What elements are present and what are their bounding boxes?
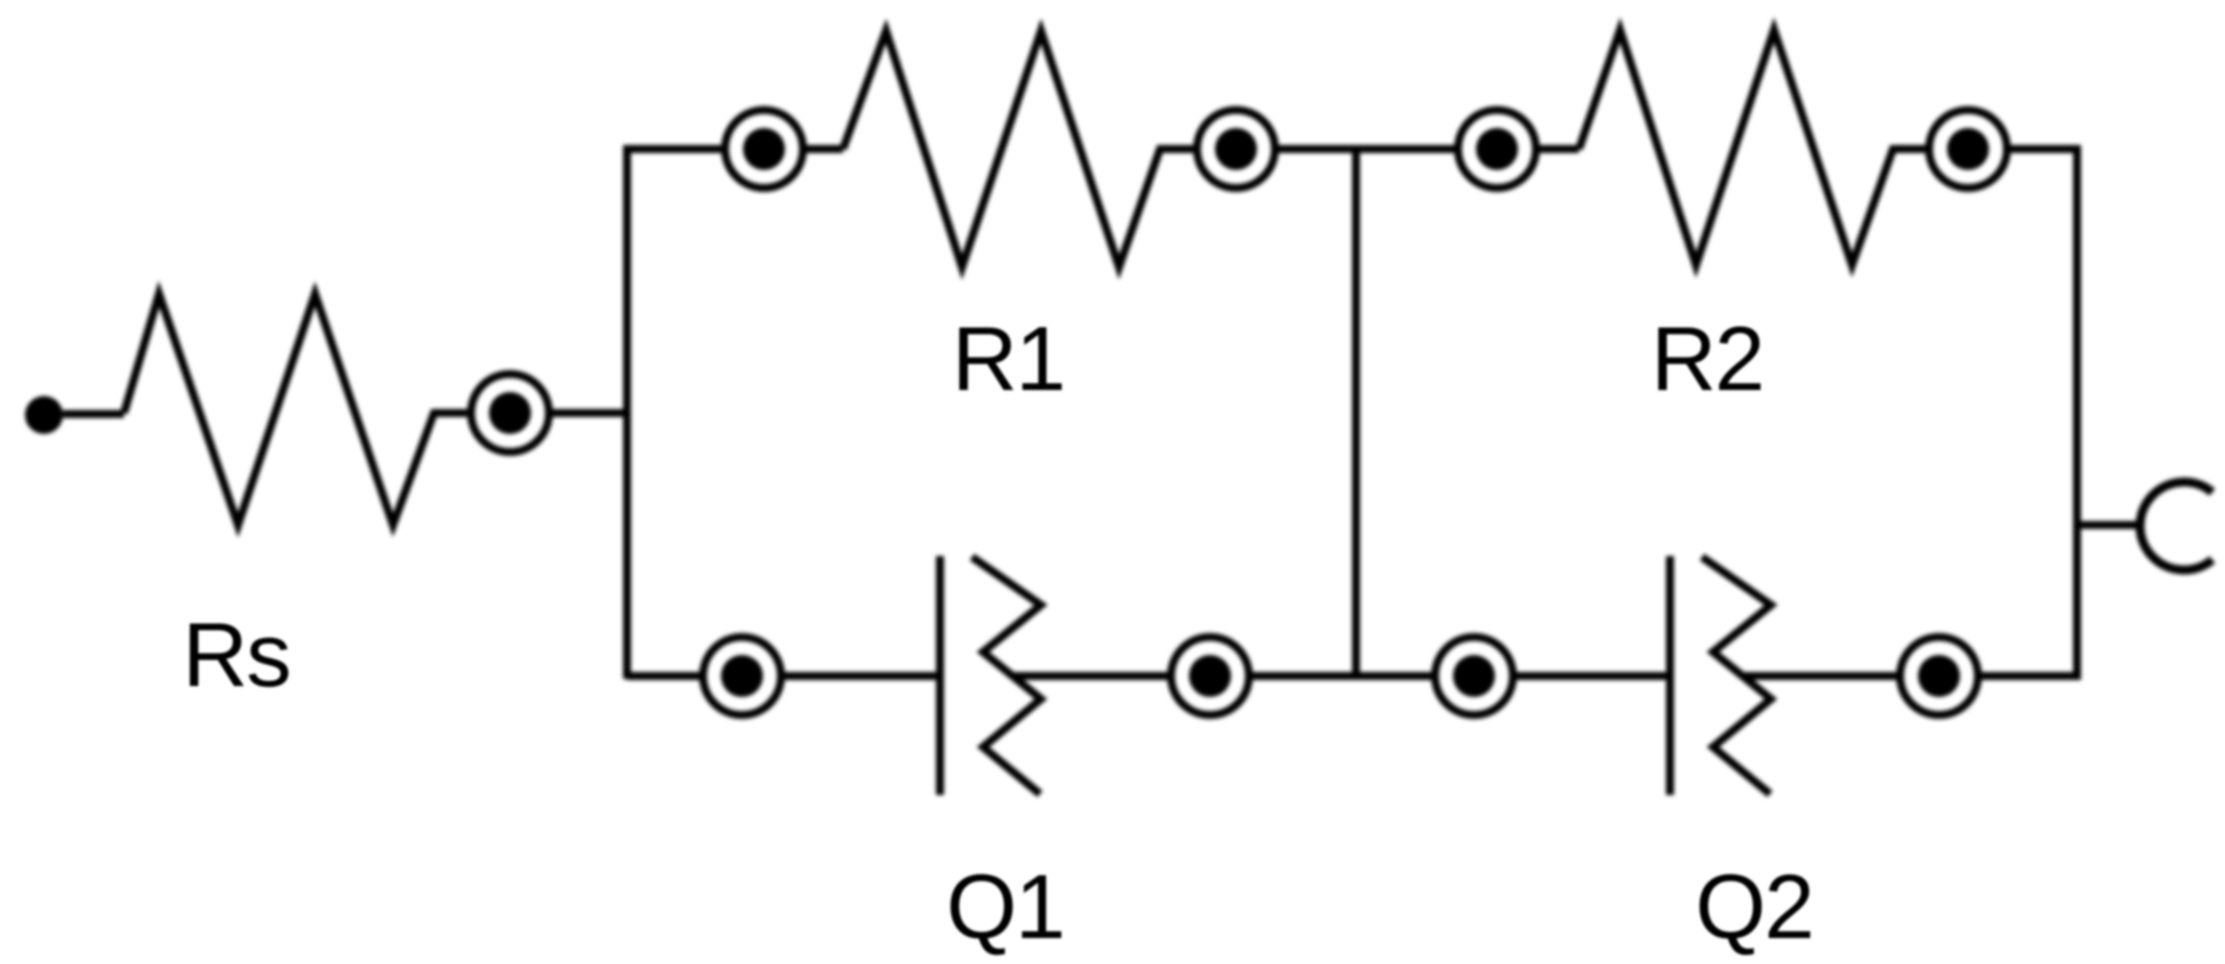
wire: P8 to Q2 <box>1513 672 1668 680</box>
wire: P6 to R2 <box>1536 145 1579 153</box>
node probe P2 (R1 left) <box>725 110 803 188</box>
CPE Q1 plate bar <box>936 556 944 795</box>
wire: top rail left segment <box>627 145 725 153</box>
svg-text:R2: R2 <box>1651 309 1763 410</box>
wire: Q1 to P5 <box>1012 672 1171 680</box>
wire: P1 to left vertical <box>549 409 631 417</box>
wire: bottom rail middle segment <box>1249 672 1435 680</box>
wire: right vertical rail <box>2073 145 2081 680</box>
wire: bottom rail right segment <box>1978 672 2077 680</box>
node probe P9 (Q2 right) <box>1900 637 1978 715</box>
svg-text:Q2: Q2 <box>1695 857 1812 958</box>
wire: Q2 to P9 <box>1742 672 1900 680</box>
resistor Rs <box>124 294 467 525</box>
node probe P8 (Q2 left) <box>1435 637 1513 715</box>
CPE Q2 plate bar <box>1666 556 1674 795</box>
wire: P2 to R1 <box>803 145 843 153</box>
wire: top rail middle segment <box>1275 145 1458 153</box>
node probe P7 (R2 right) <box>1929 110 2007 188</box>
wire: output stub <box>2077 521 2142 529</box>
resistor R2 <box>1579 30 1929 265</box>
wire: bottom rail left segment <box>627 672 703 680</box>
CPE Q2 zigzag <box>1702 557 1771 794</box>
CPE Q1 zigzag <box>972 557 1041 794</box>
input terminal dot <box>25 396 63 434</box>
node probe P3 (R1 right) <box>1197 110 1275 188</box>
wire: dot to Rs <box>63 410 124 418</box>
node probe P4 (Q1 left) <box>703 637 781 715</box>
wire: mid vertical rail <box>1352 149 1360 676</box>
node probe P5 (Q1 right) <box>1171 637 1249 715</box>
svg-text:Rs: Rs <box>182 605 289 706</box>
node probe P6 (R2 left) <box>1458 110 1536 188</box>
node probe P1 (after Rs) <box>471 374 549 452</box>
wire: left vertical rail <box>623 145 631 679</box>
wire: top rail right segment <box>2007 145 2081 153</box>
output open terminal arc <box>2140 482 2212 570</box>
wire: P4 to Q1 <box>781 672 938 680</box>
svg-text:R1: R1 <box>952 309 1064 410</box>
resistor R1 <box>843 31 1197 267</box>
svg-text:Q1: Q1 <box>946 857 1063 958</box>
